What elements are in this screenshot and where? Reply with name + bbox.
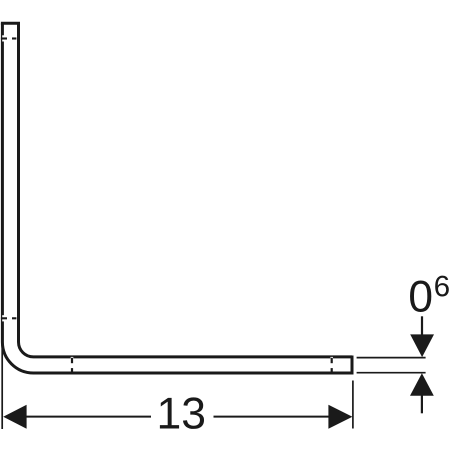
dimension 0.6: down arrowhead (410, 334, 434, 357)
pipe right end cap (351, 356, 354, 375)
pipe top cap (1, 22, 20, 25)
left vertical dashed mark on horizontal pipe (71, 358, 73, 372)
dimension 13: right arrowhead (328, 405, 352, 429)
dimension 0.6: upper extension line (357, 357, 426, 359)
dimension 13: left arrowhead (3, 405, 26, 429)
dimension 0.6: upper arrow tail (421, 316, 423, 335)
upper dashed insertion mark (1, 37, 17, 39)
dimension 0.6: value label 0 (410, 281, 431, 313)
notch in top wall at left vertical dashed mark (71, 357, 74, 359)
lower dashed insertion mark (1, 317, 17, 319)
pipe inner contour (19, 23, 353, 357)
dimension 13: dimension line right segment (214, 416, 330, 418)
right vertical dashed mark on horizontal pipe (331, 358, 333, 372)
notch in left wall at lower dashed mark (2, 315, 4, 321)
dimension 0.6: up arrowhead (410, 373, 434, 396)
dimension 0.6: lower extension line (357, 372, 426, 374)
dimension 13: value label (160, 398, 179, 429)
dimension 0.6: value label superscript 6 (435, 276, 449, 297)
pipe outer contour (2, 23, 352, 373)
dimension 0.6: lower arrow tail (421, 396, 423, 414)
dimension 13: left extension line (1, 345, 3, 429)
dimension 13: dimension line left segment (26, 416, 151, 418)
notch in top wall at right vertical dashed mark (330, 357, 333, 359)
dimension 13: right extension line (352, 381, 354, 429)
notch in left wall at upper dashed mark (2, 35, 4, 41)
